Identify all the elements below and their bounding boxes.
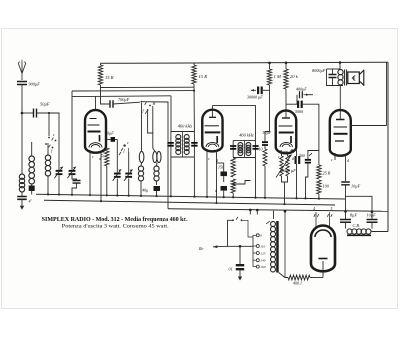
svg-text:4: 4 (313, 207, 315, 211)
wire R7 bottom (285, 89, 287, 111)
inductor L3 osc coil (45, 155, 50, 176)
variable capacitor VC1 (54, 167, 62, 178)
label R6 1M (274, 74, 282, 79)
wire VC4 top (128, 152, 130, 173)
label C23 (229, 267, 233, 272)
wire V4 plate up (339, 86, 341, 120)
tube V5 filament arc (315, 230, 331, 237)
caption line2 (62, 224, 170, 230)
inductor L6 filter choke (347, 229, 371, 234)
wire AVC line (72, 90, 195, 92)
wire R2 down to IFT1 (193, 84, 195, 132)
transformer T3 primary coil (338, 70, 343, 86)
svg-text:100: 100 (323, 184, 330, 189)
capacitor C22 10uF (367, 220, 378, 223)
transformer T4 tap stubs (253, 235, 256, 266)
transformer T4 core (276, 221, 279, 273)
wire B+ top bus (101, 62, 389, 63)
speaker LS frame (348, 72, 360, 84)
capacitor C18 10000pF (295, 156, 301, 164)
capacitor C10 (221, 172, 228, 177)
wire filter box top (346, 196, 373, 211)
svg-text:5000: 5000 (295, 109, 303, 114)
wire L4 top (141, 103, 143, 151)
transformer T1 frame (171, 132, 195, 158)
switch S2a contact (123, 144, 125, 146)
wire V1 left leg (89, 150, 91, 196)
svg-text:5: 5 (331, 207, 333, 211)
label mains (198, 246, 204, 251)
svg-text:c: c (127, 140, 129, 145)
svg-text:140: 140 (260, 259, 266, 263)
svg-text:110: 110 (260, 244, 265, 248)
capacitor C13 IFT2 right (253, 146, 259, 149)
tube V2 (202, 110, 222, 152)
node top bus junction 1M (268, 62, 271, 65)
resistor R10 25R (317, 165, 321, 179)
svg-text:SIMPLEX RADIO - Mod. 312 - Med: SIMPLEX RADIO - Mod. 312 - Media frequen… (42, 217, 189, 223)
switch S1a blade (52, 138, 54, 141)
svg-text:15 R: 15 R (199, 74, 208, 79)
label R7 20k (290, 74, 299, 79)
wire grid stopper link (309, 94, 313, 96)
switch S1b blade (49, 145, 51, 148)
capacitor C19 8000pF (329, 75, 337, 78)
wire R3 bottom (106, 166, 108, 196)
wire L5b bottom (156, 181, 158, 185)
wire R6 top (269, 63, 271, 69)
label rect pins (313, 207, 333, 211)
svg-text:4': 4' (29, 199, 32, 204)
tube V3 inner anode (280, 143, 292, 148)
label C3 4uF (29, 199, 32, 204)
svg-text:50µF: 50µF (263, 130, 272, 135)
capacitor C16 5000pF (297, 101, 303, 108)
inductor L2 primary coil (29, 156, 35, 184)
wire HT bus C (168, 209, 388, 212)
label V4 pins (331, 158, 349, 163)
tube V4 grid dashes (334, 127, 348, 141)
capacitor C21 8uF (340, 220, 351, 223)
capacitor C2 50pF (34, 109, 37, 118)
label C21 8uF (350, 213, 358, 218)
svg-text:Re: Re (198, 246, 204, 251)
capacitor C17 400pF (300, 91, 310, 98)
wire T1 left down (170, 157, 172, 197)
label C7 700pF (118, 97, 130, 102)
wire mains tap line (228, 245, 254, 247)
capacitor C15 50pF (262, 142, 268, 145)
label V2 pins (208, 157, 218, 163)
inductor T2 secondary (246, 143, 251, 156)
wire T4 top lead (266, 211, 273, 224)
wire right rail (387, 62, 389, 231)
switch S1b contact (45, 143, 47, 145)
wire screen line (101, 86, 195, 88)
antenna A (18, 60, 26, 80)
wire C7 right (113, 102, 140, 104)
resistor R2 15R (192, 65, 196, 84)
tube V3 top cap (282, 111, 290, 118)
wire antenna down (21, 85, 23, 175)
wire L2 top (31, 142, 33, 156)
svg-text:30000 µF: 30000 µF (247, 95, 263, 100)
svg-text:15 R: 15 R (105, 75, 114, 80)
wire V3 plate link (286, 103, 297, 105)
label IFT1 460kHz (178, 124, 193, 129)
label R12 400 (293, 281, 302, 286)
wire screen hook left (100, 88, 102, 91)
svg-text:01: 01 (229, 267, 233, 272)
transformer T2 frame (233, 140, 255, 157)
choke core bar (347, 234, 371, 236)
node cap tap (239, 245, 242, 248)
tube V4 top bar (336, 119, 345, 121)
resistor R1 15R (98, 65, 102, 85)
label C10 150 (218, 165, 224, 170)
capacitor C3 ground (17, 197, 27, 200)
switch S3a contact2 (149, 105, 151, 107)
node top bus junction output transformer (339, 61, 342, 64)
label S1 c (53, 132, 55, 137)
wire L3 top (47, 143, 49, 155)
svg-text:160: 160 (260, 265, 266, 269)
node top bus junction 20k (285, 62, 288, 65)
label C6 40pF (142, 188, 148, 193)
svg-text:d: d (216, 159, 218, 163)
inductor T1 primary (176, 135, 181, 155)
svg-text:0: 0 (260, 234, 262, 238)
variable capacitor VC3 (113, 169, 121, 180)
wire OT top (339, 63, 341, 70)
switch S1a contact (48, 137, 50, 139)
label C20 10uF (351, 184, 361, 189)
label S3 f (152, 101, 157, 106)
wire V3 legs (281, 150, 291, 153)
wire C10 up (223, 163, 225, 172)
label S3b f (143, 108, 145, 113)
svg-text:10µF: 10µF (351, 184, 361, 189)
wire C5 right (115, 139, 117, 141)
label S1 f (51, 148, 53, 153)
svg-text:50µF: 50µF (40, 102, 50, 107)
label C1 900pF (29, 82, 41, 87)
transformer T2 core (243, 140, 245, 157)
resistor R9 potentiometer (280, 156, 289, 176)
resistor R5 (231, 179, 235, 193)
wire R1 bottom (100, 85, 102, 88)
svg-text:400µF: 400µF (296, 87, 307, 92)
switch S1b contact 2 (52, 147, 54, 149)
tube V2 inner anode (206, 142, 219, 147)
capacitor C5 50pF grid (106, 137, 115, 142)
wire R12 left (279, 210, 288, 278)
wire VC2 top (71, 91, 73, 170)
svg-text:500: 500 (299, 154, 305, 158)
wire C10 down (223, 176, 225, 182)
potentiometer wiper (276, 155, 292, 178)
wire L1 to gnd cap (21, 192, 23, 196)
wire C2 to grid line (37, 113, 50, 136)
wire rect heater 2 (327, 212, 332, 227)
wire C7 left (101, 91, 111, 104)
wire V2 left leg (206, 149, 208, 198)
wire pot down (283, 182, 285, 205)
switch S3a blade (145, 102, 147, 105)
label R11 100 (323, 184, 330, 189)
resistor R6 1M (267, 69, 271, 85)
inductor L4b coil (138, 166, 143, 181)
tube V4 (330, 110, 351, 156)
speaker LS magnet (352, 76, 356, 80)
wire L5 top (153, 106, 155, 151)
switch S3b contact (147, 109, 149, 111)
transformer T4 tap bracket (252, 235, 254, 266)
wire R2 top to bus (193, 63, 195, 65)
wire bus to transformer (250, 210, 257, 215)
svg-text:8µF: 8µF (350, 213, 358, 218)
wire V4 legs (335, 153, 346, 181)
inductor L1 antenna coil (19, 174, 24, 192)
svg-text:d: d (292, 157, 294, 161)
resistor R11 100 (317, 180, 321, 194)
switch S1a contact 2 (55, 140, 57, 142)
ground G1 (20, 200, 24, 210)
svg-text:460 kHz: 460 kHz (239, 133, 254, 138)
svg-text:25 R: 25 R (323, 171, 331, 176)
svg-text:d: d (347, 159, 349, 163)
transformer T1 core (182, 132, 184, 158)
wire R8 bottom (264, 166, 266, 199)
svg-text:c: c (53, 132, 55, 137)
wire C24 loop (304, 151, 319, 200)
switch S3b contact2 (145, 111, 147, 114)
transformer T3 frame (327, 69, 344, 86)
switch S4 mains (232, 217, 242, 221)
resistor R8 10 (263, 149, 267, 166)
svg-text:900µF: 900µF (29, 82, 41, 87)
svg-text:10: 10 (259, 147, 263, 152)
svg-text:50µF: 50µF (105, 131, 114, 136)
wire C21 stub (345, 211, 347, 228)
ground G2 (238, 271, 242, 281)
variable capacitor VC4 (124, 169, 132, 180)
wire T2 right down (254, 158, 256, 199)
wire V1 right leg (100, 151, 102, 202)
capacitor C20 10uF (341, 182, 350, 185)
wire C15 top (265, 85, 270, 142)
svg-text:10000 µF: 10000 µF (280, 168, 296, 173)
tube V1 (85, 110, 106, 153)
wire T1 right down (193, 157, 195, 198)
variable capacitor VC2 (67, 167, 75, 178)
wire R12 right (310, 277, 323, 279)
wire VC3 top (116, 140, 118, 173)
label C5 50pF (105, 131, 114, 136)
label R10 25R (323, 171, 331, 176)
svg-text:40µ: 40µ (142, 188, 148, 193)
wire R3 top (105, 146, 107, 148)
wire V2 grid cap line (212, 106, 255, 141)
wire C11 down (223, 191, 225, 199)
label R3 (100, 150, 106, 159)
wire V2 right leg (215, 150, 223, 204)
tube V2 top cap (209, 106, 216, 118)
wire C18 wiring (291, 150, 298, 199)
label C24 500pF (299, 154, 305, 158)
inductor L5b coil (154, 166, 159, 181)
wire C22 stub (371, 212, 373, 229)
wire R7 top (285, 63, 287, 69)
switch S2b blade (119, 152, 121, 155)
svg-text:460 kHz: 460 kHz (178, 124, 193, 129)
wire C6 bottom (155, 191, 157, 197)
speaker LS cone (359, 70, 364, 86)
label C2 50pF (40, 102, 50, 107)
capacitor C8 IFT1 left (167, 143, 173, 146)
switch S2a blade (121, 148, 123, 151)
wire V4 right to rail (351, 125, 387, 127)
node bus junctions (249, 209, 373, 213)
tube V1 inner anode (89, 143, 102, 148)
svg-text:20 k: 20 k (290, 74, 299, 79)
wire switch to bracket (242, 220, 254, 237)
wire rail upper (386, 62, 388, 125)
wire grid riser (141, 102, 168, 209)
capacitor C9 IFT1 right (191, 143, 197, 146)
inductor T2 primary (238, 143, 243, 156)
inductor L5 loop (153, 151, 161, 162)
tube V1 grid dashes (88, 119, 101, 142)
node antenna junction (21, 112, 24, 115)
wire T1 primary top (170, 96, 172, 132)
caption line1 (42, 217, 189, 223)
tube V3 (276, 110, 297, 153)
capacitor C6 40pF (154, 186, 161, 191)
wire C16 up branch (296, 95, 298, 105)
svg-text:1 M: 1 M (274, 74, 282, 79)
svg-text:C.B.: C.B. (353, 223, 360, 228)
svg-text:10µF: 10µF (367, 213, 377, 218)
wire R8 top (264, 145, 266, 149)
resistor R3 cathode (105, 148, 109, 166)
wire S2 stub (128, 148, 130, 152)
label C11 (215, 188, 218, 193)
wire VC1 down (58, 175, 60, 195)
wire ant to C2 (22, 112, 34, 114)
label S2 c (127, 140, 129, 145)
svg-text:Potenza d'uscita 3 watt. Consu: Potenza d'uscita 3 watt. Consumo 45 watt… (62, 224, 170, 230)
label IFT2 460kHz (239, 133, 254, 138)
wire C4 wiring (71, 175, 77, 196)
wire L4b link (140, 163, 143, 166)
wire chassis bus B (44, 200, 335, 205)
wire R10 top (318, 150, 320, 165)
trimmer CT1 (29, 184, 35, 195)
svg-text:150: 150 (218, 165, 224, 170)
label C17 400pF (296, 87, 307, 92)
wire pot bottom (282, 176, 288, 182)
wire V5 bottom (322, 261, 324, 278)
label V1 pins (92, 155, 101, 161)
wire S3 drop (148, 110, 153, 133)
inductor T1 secondary (184, 135, 189, 155)
svg-text:700µF: 700µF (118, 97, 130, 102)
label C16 5000 (295, 109, 303, 114)
transformer T4 secondary coil (271, 222, 276, 273)
wire C20 down (345, 185, 347, 212)
tube V3 grid dashes (279, 126, 294, 143)
capacitor C1 900pF antenna series (17, 82, 27, 85)
wire L3 bottom (47, 176, 49, 195)
label C22 10uF (367, 213, 377, 218)
capacitor C14 30000pF (251, 87, 270, 95)
transformer T4 tap labels (260, 234, 266, 269)
tube V5 (311, 226, 335, 272)
wire L5b link (156, 163, 159, 166)
wire tuning link (48, 112, 59, 170)
resistor R4 (231, 158, 235, 177)
wire mains switch left (228, 220, 234, 246)
label choke CB (353, 223, 360, 228)
tube V2 grid dashes (205, 126, 221, 143)
label C19 8000pF (312, 68, 326, 73)
capacitor C4 padder (73, 181, 81, 184)
wire R11 bottom (318, 194, 320, 200)
capacitor C12 IFT2 left (230, 146, 236, 149)
transformer T4 primary taps (256, 234, 259, 268)
wire pot top (282, 152, 288, 156)
wire cap tap (239, 246, 241, 264)
label S2 f (124, 148, 126, 153)
wire R5 bottom (232, 193, 234, 198)
wire C16 right (303, 104, 319, 150)
capacitor C23 line filter (236, 264, 244, 270)
capacitor C24 500pF (305, 153, 312, 162)
label R8 10 (259, 147, 263, 152)
svg-text:400.1: 400.1 (293, 281, 302, 286)
wire R1 top to bus (100, 63, 102, 65)
label C14 30000pF (247, 95, 263, 100)
label V3 pins (278, 155, 294, 161)
label C15 50pF (263, 130, 272, 135)
resistor R7 20k (284, 69, 288, 89)
wire mains lead (213, 245, 228, 248)
wire VC3 bottom (116, 179, 118, 197)
svg-text:8000µF: 8000µF (312, 68, 326, 73)
wire L4b bottom (140, 181, 142, 197)
wire VC4 bottom (128, 179, 130, 197)
inductor L4 loop (139, 151, 144, 162)
label R2 15R (199, 74, 208, 79)
wire plate line (72, 95, 171, 98)
wire rect heater 1 (314, 212, 319, 227)
label C18 10000pF (280, 168, 296, 173)
wire chassis bus A (36, 194, 345, 199)
tube V5 plate bar (319, 258, 328, 260)
label R1 15R (105, 75, 114, 80)
wire V1 plate up (95, 97, 97, 111)
resistor R12 heater (288, 275, 310, 280)
wire switch arm (233, 181, 250, 185)
capacitor C7 700pF (110, 100, 113, 108)
switch S3a contact (141, 101, 143, 103)
transformer T3 core (345, 70, 347, 86)
wire choke to rail (371, 231, 388, 233)
svg-text:125: 125 (260, 251, 266, 255)
capacitor C11 (221, 186, 228, 191)
